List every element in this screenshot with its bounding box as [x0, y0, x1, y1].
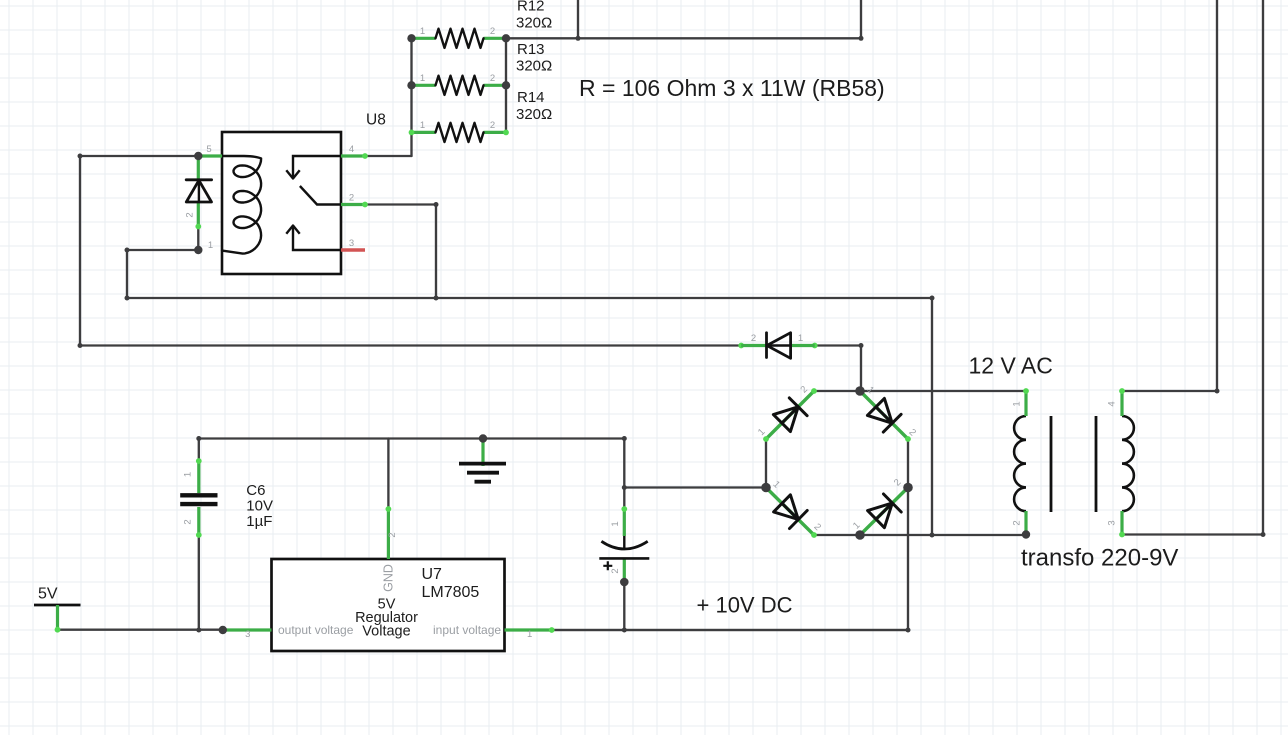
svg-text:1: 1: [208, 240, 213, 251]
bridge diode lower-right: [860, 488, 908, 536]
svg-text:input voltage: input voltage: [433, 623, 501, 637]
wire corner dot 1: [78, 154, 83, 159]
svg-text:3: 3: [349, 238, 354, 249]
wire corner dot 3: [125, 248, 130, 253]
svg-text:320Ω: 320Ω: [516, 106, 552, 123]
transformer pin 2 stub: [1024, 511, 1027, 535]
svg-text:2: 2: [610, 568, 621, 573]
wire corner dot 18: [196, 628, 201, 633]
relay pin 4 stub: [341, 154, 365, 157]
svg-text:2: 2: [387, 532, 398, 537]
wire vertical to top edge B: [860, 0, 862, 38]
transformer secondary winding: [1122, 416, 1134, 511]
wire corner dot 5: [434, 202, 439, 207]
wire C6 lower lead to 5V rail: [198, 535, 200, 630]
capacitor C6 pin1 stub: [197, 461, 200, 493]
relay U8 body: [222, 132, 341, 274]
U7 pin 1 stub: [505, 628, 552, 631]
U7 pin 3 stub: [223, 628, 272, 631]
wire U7 GND riser: [387, 439, 389, 510]
wire C6 upper lead: [198, 439, 200, 462]
svg-text:output voltage: output voltage: [278, 623, 354, 637]
junction node polarized cap pin2: [620, 578, 629, 587]
diode D-relay upper stub: [197, 156, 200, 179]
svg-text:transfo 220-9V: transfo 220-9V: [1021, 545, 1178, 572]
bridge diode lower-left: [766, 488, 814, 536]
pin cap polarized cap pin1: [621, 506, 627, 512]
svg-text:R13: R13: [517, 41, 545, 58]
wire corner dot 4: [125, 296, 130, 301]
svg-text:1: 1: [798, 333, 803, 344]
wire 5V rail: [58, 629, 223, 631]
pin cap 5V flag: [55, 627, 61, 633]
wire corner dot 16: [1215, 389, 1220, 394]
diode D-top symbol (cathode left): [765, 333, 768, 358]
wire cap corner down: [623, 439, 625, 510]
svg-text:1µF: 1µF: [246, 513, 272, 530]
relay U8 switch blade: [300, 186, 341, 205]
transformer core bars: [1051, 416, 1096, 512]
capacitor C6 plates: [180, 495, 217, 504]
diode D-top pin1 stub: [791, 344, 815, 347]
relay pin 2 stub: [341, 203, 365, 206]
wire corner dot 2: [78, 343, 83, 348]
wire transformer pin4 to right riser: [1122, 0, 1217, 391]
diode D-relay lower stub: [197, 202, 200, 227]
wire relay pin5 left then down: [80, 156, 198, 346]
wire relay pin1 loop down: [127, 250, 932, 535]
svg-text:320Ω: 320Ω: [516, 57, 552, 74]
polarized cap pin1 stub: [623, 509, 626, 536]
svg-text:2: 2: [1012, 520, 1023, 525]
power flag 5V bar: [34, 604, 81, 607]
pin cap C6 pin2: [196, 532, 202, 538]
svg-text:320Ω: 320Ω: [516, 14, 552, 31]
svg-text:U7: U7: [422, 566, 443, 583]
svg-text:1: 1: [610, 521, 621, 526]
pin cap transformer 4: [1119, 388, 1125, 394]
svg-text:2: 2: [490, 120, 495, 131]
wire corner dot 15: [906, 628, 911, 633]
resistor R15 (third parallel resistor): [412, 131, 436, 134]
wire relay pin4 to rail: [365, 155, 412, 157]
relay U8 lower throw arm (pin3): [293, 227, 341, 250]
relay pin 5 stub: [198, 154, 222, 157]
junction node bridge AC top: [855, 386, 865, 396]
polarized cap curved plate: [601, 541, 647, 549]
svg-text:R12: R12: [517, 0, 545, 14]
pin cap U7 pin1: [549, 627, 555, 633]
junction node ground / top rail: [479, 434, 487, 442]
junction node transformer pin2 / AC rail: [1022, 530, 1030, 538]
junction node relay pin5 / diode: [194, 152, 202, 160]
bridge diode upper-right: [860, 391, 908, 439]
transformer pin 4 stub: [1120, 391, 1123, 416]
pin cap U7 GND: [386, 506, 392, 512]
svg-text:5: 5: [206, 144, 211, 155]
wire corner dot 6: [434, 296, 439, 301]
pin cap row3 left: [409, 130, 415, 136]
wire corner dot 7: [859, 343, 864, 348]
pin cap C6 pin1: [196, 458, 202, 464]
svg-text:3: 3: [245, 629, 250, 640]
U7 GND pin stub: [387, 509, 390, 559]
diode D-relay symbol (cathode up): [186, 178, 211, 181]
svg-text:2: 2: [490, 26, 495, 37]
capacitor C6 pin2 stub: [197, 507, 200, 535]
regulator U7 body: [272, 559, 505, 651]
svg-text:1: 1: [1012, 401, 1023, 406]
wire left rail of resistor bank: [410, 38, 412, 156]
polarized cap pin2 stub: [623, 559, 626, 582]
pin cap relay pin2: [362, 202, 368, 208]
pin cap relay diode anode: [195, 224, 201, 230]
svg-text:4: 4: [349, 144, 354, 155]
svg-text:2: 2: [349, 193, 354, 204]
relay U8 switch common arm (pin4): [293, 156, 341, 177]
svg-text:10V: 10V: [246, 497, 273, 514]
bridge right rail: [907, 439, 909, 488]
svg-text:GND: GND: [382, 564, 396, 592]
wire relay pin2 branch: [365, 205, 436, 299]
wire top rail C6 to cap corner: [199, 437, 625, 439]
wire corner dot 17: [1261, 532, 1266, 537]
bridge bottom edge to transformer pin2: [814, 534, 1026, 536]
pin cap top diode 1: [812, 343, 818, 349]
wire top net to right: [506, 37, 861, 39]
svg-text:1: 1: [420, 26, 425, 37]
junction node rail-left row1: [407, 34, 415, 42]
svg-text:2: 2: [185, 212, 196, 217]
resistor R13: [412, 37, 436, 40]
polarized cap straight plate: [599, 557, 649, 560]
wire corner dot 11: [622, 436, 627, 441]
svg-text:5V: 5V: [38, 586, 58, 603]
svg-text:1: 1: [183, 472, 194, 477]
svg-text:LM7805: LM7805: [422, 584, 480, 601]
junction node bridge AC bottom: [855, 530, 865, 540]
wire right rail of resistor bank: [505, 38, 507, 132]
junction node bridge DC- left: [761, 483, 771, 493]
bridge top edge: [814, 390, 860, 392]
wire transformer pin3 to far right riser: [1122, 0, 1263, 535]
junction node rail-left row2: [407, 81, 415, 89]
transformer pin 3 stub: [1120, 511, 1123, 535]
transformer pin 1 stub: [1024, 391, 1027, 416]
relay pin 3 stub (red, unconnected): [341, 248, 365, 252]
wire corner dot 8: [576, 36, 581, 41]
svg-text:1: 1: [420, 120, 425, 131]
wire corner dot 19: [622, 628, 627, 633]
junction node bridge DC+ right: [903, 483, 913, 493]
bridge diode upper-left: [766, 391, 814, 439]
svg-text:R = 106 Ohm 3 x 11W (RB58): R = 106 Ohm 3 x 11W (RB58): [579, 75, 885, 101]
wire long to bridge diode D-top: [80, 344, 741, 346]
svg-text:+ 10V DC: + 10V DC: [697, 593, 793, 618]
pin cap transformer 1: [1023, 388, 1029, 394]
svg-text:2: 2: [490, 73, 495, 84]
diode D-top pin2 stub: [741, 344, 766, 347]
wire bridge top junction to transformer pin1: [860, 390, 1026, 392]
wire cap branch to bridge DC-: [624, 486, 766, 488]
svg-text:4: 4: [1107, 401, 1118, 406]
wire vertical to top edge A: [577, 0, 579, 38]
wire corner dot 14: [930, 533, 935, 538]
wire corner dot 10: [196, 436, 201, 441]
junction node relay pin1 / diode: [194, 246, 202, 254]
svg-text:3: 3: [1107, 520, 1118, 525]
pin cap row3 right: [503, 130, 509, 136]
svg-text:2: 2: [183, 519, 194, 524]
wire diode to bridge top corner: [815, 346, 861, 392]
power flag 5V stub: [56, 605, 59, 630]
wire cap lower lead down: [623, 582, 625, 630]
junction node rail-right row1: [502, 34, 510, 42]
pin cap transformer 3: [1119, 532, 1125, 538]
svg-text:2: 2: [751, 333, 756, 344]
relay U8 coil: [222, 156, 261, 254]
svg-text:12 V AC: 12 V AC: [969, 353, 1053, 379]
resistor R14: [412, 84, 436, 87]
pin cap relay pin4: [362, 153, 368, 159]
svg-text:U8: U8: [366, 112, 386, 129]
bridge left rail: [765, 439, 767, 488]
wire corner dot 12: [622, 485, 627, 490]
svg-text:C6: C6: [246, 482, 265, 499]
svg-text:1: 1: [420, 73, 425, 84]
polarized cap pin1 inner lead: [623, 536, 625, 549]
ground symbol bars: [459, 462, 506, 466]
ground stub: [481, 439, 484, 467]
wire bridge DC+ down and left to U7 pin1: [552, 488, 908, 631]
transformer primary winding: [1014, 416, 1026, 511]
polarized cap plus sign: [603, 561, 612, 570]
wire U7 pin1 to bridge: [552, 629, 908, 631]
junction node U7 pin3 / 5V rail: [219, 626, 227, 634]
wire relay diode lower lead: [197, 227, 199, 251]
wire corner dot 9: [859, 36, 864, 41]
junction node rail-right row2: [502, 81, 510, 89]
svg-text:Voltage: Voltage: [362, 624, 410, 640]
svg-text:R14: R14: [517, 89, 545, 106]
pin cap top diode 2: [738, 343, 744, 349]
wire corner dot 13: [930, 296, 935, 301]
svg-text:1: 1: [527, 629, 532, 640]
